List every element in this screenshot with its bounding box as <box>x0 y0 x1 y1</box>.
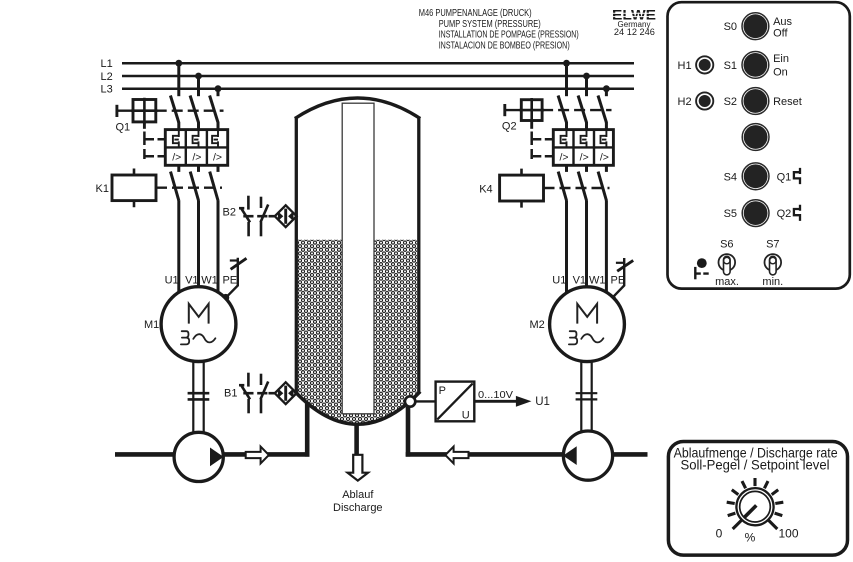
B1 contact 1 upper terminal <box>247 373 250 387</box>
transducer output arrowhead <box>516 396 532 407</box>
wire Q2 pole 3 to overload box <box>605 122 608 131</box>
bus line L2 <box>122 75 634 78</box>
svg-text:S4: S4 <box>724 171 737 183</box>
breaker Q2 handle link <box>505 109 522 111</box>
svg-text:Ablauf: Ablauf <box>342 489 374 501</box>
pipe left horizontal <box>115 452 310 457</box>
pipe left riser <box>305 403 310 457</box>
svg-text:Off: Off <box>773 27 788 39</box>
svg-text:INSTALLATION DE POMPAGE (PRESS: INSTALLATION DE POMPAGE (PRESSION) <box>439 30 579 41</box>
B1 diamond left triangle <box>278 388 283 398</box>
tank left wall <box>295 117 298 395</box>
B1 contact 1 lower terminal <box>247 399 250 413</box>
svg-text:Discharge: Discharge <box>333 502 383 514</box>
svg-text:/>: /> <box>172 152 181 164</box>
svg-text:U1: U1 <box>535 396 550 408</box>
svg-text:S5: S5 <box>724 208 737 220</box>
Q1 trip linkage dashed horizontal lower <box>146 155 166 158</box>
motor M2 sine glyph <box>581 334 603 342</box>
B2 contact 2 cross tick <box>257 215 267 218</box>
B2 diamond connector <box>275 205 297 227</box>
PE link blade (M2) <box>617 260 633 271</box>
wire F1 to K1 contact pole 3 <box>217 165 220 172</box>
B1 diamond connector <box>275 382 297 404</box>
svg-text:B1: B1 <box>224 388 237 400</box>
breaker Q1 handle tick <box>115 105 118 117</box>
sensor B1 contact group <box>239 373 277 414</box>
flow arrow right-pointing <box>246 447 269 464</box>
svg-text:100: 100 <box>778 527 798 541</box>
breaker Q1 pole 2 blade <box>190 96 198 123</box>
svg-text:Q2: Q2 <box>777 208 792 220</box>
svg-text:Q2: Q2 <box>502 121 517 133</box>
svg-text:min.: min. <box>762 276 783 288</box>
bus line L3 <box>122 87 634 90</box>
breaker Q1 pole 3 blade <box>210 96 218 123</box>
contactor K4 coil box <box>500 175 544 201</box>
transducer diagonal <box>437 383 473 419</box>
Q1 trip linkage dashed horizontal upper <box>146 138 166 141</box>
svg-text:0...10V: 0...10V <box>478 390 513 401</box>
wire K1 to motor U1 <box>177 200 180 292</box>
pump P1 impeller triangle <box>210 448 224 467</box>
node L3-Q2 junction <box>603 85 610 92</box>
node L1-Q2 junction <box>563 60 570 67</box>
coupling M1 <box>188 393 210 399</box>
wire L1 drop to Q1 pole 1 <box>177 63 180 96</box>
B2 diamond left triangle <box>278 211 283 221</box>
Q2 linkage dashed line <box>542 109 611 111</box>
tank liquid fill pattern <box>298 240 417 424</box>
svg-text:S6: S6 <box>720 238 733 250</box>
Q2 trip linkage dashed horizontal upper <box>533 138 554 141</box>
B1 contact 2 lower terminal <box>260 399 263 413</box>
contactor K1 contact blade pole 1 <box>171 172 179 201</box>
B2 contact 2 lower terminal <box>260 222 263 236</box>
svg-text:S0: S0 <box>724 21 737 33</box>
pressure tap circle <box>405 396 415 406</box>
PE wire (M1) <box>226 258 238 298</box>
motor M1 3 glyph <box>181 331 189 344</box>
breaker Q2 operator cross <box>520 98 545 122</box>
svg-text:Q1: Q1 <box>116 121 131 133</box>
indicator H2 <box>696 92 713 109</box>
node PE junction on M2 <box>609 295 616 302</box>
svg-text:S2: S2 <box>724 96 737 108</box>
wire F2 to K4 contact pole 1 <box>565 165 568 172</box>
Q1 trip linkage dashed vertical <box>143 132 146 160</box>
overload relay F2 thermal element pole 3 <box>601 130 607 147</box>
discharge arrow <box>348 455 368 481</box>
B2 contact 1 blade tick <box>239 207 244 210</box>
pump P1 circle <box>174 432 223 481</box>
svg-text:H2: H2 <box>678 96 692 108</box>
breaker Q2 pole 2 blade <box>578 96 586 123</box>
wire F1 to K1 contact pole 2 <box>197 165 200 172</box>
wire Q1 pole 1 to overload box <box>177 122 180 131</box>
svg-text:/>: /> <box>559 152 568 164</box>
knob scale ticks <box>727 478 784 529</box>
svg-text:/>: /> <box>213 152 222 164</box>
wire F2 to K4 contact pole 3 <box>605 165 608 172</box>
motor M2 3 glyph <box>569 331 577 344</box>
svg-text:K4: K4 <box>479 184 492 196</box>
pipe right riser <box>406 407 411 457</box>
wire Q1 pole 2 to overload box <box>197 122 200 131</box>
breaker Q2 handle tick <box>503 104 506 116</box>
overload relay F1 dividers <box>165 130 227 166</box>
contactor K1 contact blade pole 2 <box>190 172 198 201</box>
wire L3 drop to Q2 pole 3 <box>605 89 608 97</box>
B1 contact 2 cross tick <box>257 392 267 395</box>
svg-text:V1: V1 <box>573 274 586 286</box>
svg-text:24 12 246: 24 12 246 <box>614 27 655 37</box>
breaker Q1 operator cross <box>131 98 157 124</box>
svg-text:PE: PE <box>222 274 237 286</box>
svg-text:0: 0 <box>716 527 723 541</box>
K4 linkage dashed line <box>544 187 610 189</box>
motor M2 circle <box>550 287 625 362</box>
wire F2 to K4 contact pole 2 <box>585 165 588 172</box>
B2 link wire to diamond <box>269 215 277 218</box>
pipe tank outlet <box>354 423 359 455</box>
B2 contact 1 upper terminal <box>247 196 250 210</box>
Q1 trip linkage stub <box>143 122 146 129</box>
shaft M1 <box>193 361 203 433</box>
Q1 linkage dashed line <box>156 109 224 111</box>
PE link blade (M1) <box>231 258 247 269</box>
B1 contact 2 upper terminal <box>260 374 263 385</box>
svg-text:S7: S7 <box>766 238 779 250</box>
contactor K1 coil box <box>112 175 156 201</box>
svg-text:Ein: Ein <box>773 53 789 65</box>
knob inner circle <box>740 491 771 522</box>
overload relay F2 dividers <box>553 130 613 166</box>
B1 contact 1 blade tick <box>239 384 244 387</box>
breaker Q2 pole 3 blade <box>598 96 606 123</box>
overload relay F2 box <box>553 130 613 166</box>
lamp icon <box>695 258 708 279</box>
shaft M2 <box>576 361 598 432</box>
bus line L1 <box>122 62 634 65</box>
svg-text:max.: max. <box>715 276 739 288</box>
contactor K4 coil ticks <box>520 169 523 208</box>
node L2-Q2 junction <box>583 73 590 80</box>
motor M2 M glyph <box>577 304 597 324</box>
wire Q2 pole 1 to overload box <box>565 122 568 131</box>
B2 diamond right triangle <box>288 211 293 221</box>
B2 contact 1 blade <box>241 208 250 222</box>
indicator H1 <box>696 56 713 73</box>
button S3 unlabeled <box>742 124 769 151</box>
pump P2 circle <box>563 431 612 480</box>
svg-text:H1: H1 <box>678 60 692 72</box>
overload relay F1 thermal element pole 2 <box>193 130 199 147</box>
svg-text:L3: L3 <box>101 84 113 96</box>
B2 contact 2 upper terminal <box>260 197 263 208</box>
overload relay F2 thermal element pole 1 <box>561 130 567 147</box>
B1 contact 2 blade <box>261 382 269 400</box>
svg-text:P: P <box>439 385 446 397</box>
svg-text:U1: U1 <box>165 274 179 286</box>
button S4 <box>742 163 769 190</box>
wire Q2 pole 2 to overload box <box>585 122 588 131</box>
svg-text:%: % <box>745 531 756 545</box>
svg-text:On: On <box>773 66 788 78</box>
wire K4 to motor V1 <box>585 200 588 288</box>
button S0 <box>742 13 769 40</box>
overload relay F1 thermal element pole 1 <box>173 130 179 147</box>
wire Q1 pole 3 to overload box <box>217 122 220 131</box>
wire L2 drop to Q2 pole 2 <box>585 76 588 96</box>
svg-text:B2: B2 <box>223 207 236 219</box>
button S2 <box>742 88 769 115</box>
toggle switch S7 <box>765 254 782 275</box>
PE link tick (M1) <box>230 259 237 261</box>
svg-text:/>: /> <box>192 152 201 164</box>
wire K1 to motor V1 <box>197 200 200 288</box>
breaker Q1 operator square <box>133 100 156 122</box>
svg-text:/>: /> <box>600 152 609 164</box>
motor M1 M glyph <box>189 304 209 324</box>
wire K1 to motor W1 <box>217 200 220 292</box>
svg-text:L2: L2 <box>101 71 113 83</box>
contactor K4 contact blade pole 1 <box>558 172 566 201</box>
PE wire (M2) <box>613 258 624 297</box>
transducer output wire <box>474 400 518 403</box>
B1 contact 1 cross tick <box>243 392 253 395</box>
wire L2 drop to Q1 pole 2 <box>197 76 200 96</box>
knob outer circle <box>736 488 773 525</box>
control panel frame <box>668 2 850 288</box>
breaker icon S4 <box>794 168 800 184</box>
wire K4 to motor W1 <box>605 200 608 292</box>
svg-text:W1: W1 <box>589 274 606 286</box>
knob pointer <box>744 505 756 517</box>
Q2 trip linkage dashed horizontal lower <box>533 155 554 158</box>
svg-text:W1: W1 <box>201 274 218 286</box>
node PE junction on M1 <box>222 294 229 301</box>
contactor K4 contact blade pole 3 <box>598 172 606 201</box>
wire L3 drop to Q1 pole 3 <box>217 89 220 97</box>
tank bottom dome <box>295 392 420 425</box>
breaker Q1 pole 1 blade <box>170 96 178 123</box>
pipe right horizontal <box>406 452 648 457</box>
svg-text:/>: /> <box>580 152 589 164</box>
contactor K1 contact blade pole 3 <box>210 172 218 201</box>
B2 contact 2 blade <box>261 205 269 223</box>
svg-text:PUMP SYSTEM (PRESSURE): PUMP SYSTEM (PRESSURE) <box>439 19 541 30</box>
svg-text:K1: K1 <box>96 183 109 195</box>
transducer P/U box <box>436 382 475 422</box>
tank right wall <box>417 117 420 395</box>
B1 diamond right triangle <box>288 388 293 398</box>
wire F1 to K1 contact pole 1 <box>177 165 180 172</box>
svg-text:M2: M2 <box>530 319 545 331</box>
svg-text:U1: U1 <box>552 274 566 286</box>
ELWE logo <box>612 8 656 23</box>
tank top dome <box>295 98 420 119</box>
svg-text:U: U <box>462 409 470 421</box>
breaker Q2 operator square <box>521 100 542 121</box>
wire L1 drop to Q2 pole 1 <box>565 63 568 96</box>
overload relay F1 box <box>165 130 227 166</box>
sensor B2 contact group <box>239 196 277 237</box>
B2 contact 1 lower terminal <box>247 222 250 236</box>
svg-text:V1: V1 <box>185 274 198 286</box>
B1 link wire to diamond <box>269 392 277 395</box>
toggle switch S6 <box>719 254 736 275</box>
B1 contact 1 blade <box>241 385 250 399</box>
svg-text:INSTALACION DE BOMBEO (PRESION: INSTALACION DE BOMBEO (PRESION) <box>439 40 570 51</box>
pump P2 impeller triangle <box>563 446 577 465</box>
breaker Q2 pole 1 blade <box>558 96 566 123</box>
breaker Q1 handle link <box>117 109 133 111</box>
wire K4 to motor U1 <box>565 200 568 292</box>
contactor K1 coil ticks <box>133 169 136 208</box>
svg-text:Soll-Pegel / Setpoint level: Soll-Pegel / Setpoint level <box>681 457 830 473</box>
node L2-Q1 junction <box>195 73 202 80</box>
svg-text:M46 PUMPENANLAGE (DRUCK): M46 PUMPENANLAGE (DRUCK) <box>419 8 532 19</box>
tank sight tube <box>342 103 374 414</box>
svg-text:Aus: Aus <box>773 16 792 28</box>
wire tap to transducer <box>415 400 436 402</box>
button S1 <box>742 52 769 79</box>
Q2 trip linkage stub <box>530 121 533 129</box>
B2 contact 1 cross tick <box>243 215 253 218</box>
Q2 trip linkage dashed vertical <box>530 132 533 160</box>
flow arrow left-pointing <box>445 447 468 464</box>
svg-text:Reset: Reset <box>773 96 802 108</box>
svg-text:L1: L1 <box>101 58 113 70</box>
overload relay F2 thermal element pole 2 <box>581 130 587 147</box>
contactor K4 contact blade pole 2 <box>578 172 586 201</box>
motor M1 sine glyph <box>193 334 215 342</box>
K1 linkage dashed line <box>156 186 222 188</box>
svg-text:Q1: Q1 <box>777 171 792 183</box>
button S5 <box>742 200 769 227</box>
breaker icon S5 <box>794 205 800 221</box>
node L1-Q1 junction <box>175 60 182 67</box>
PE link tick (M2) <box>616 262 623 264</box>
overload relay F1 thermal element pole 3 <box>212 130 218 147</box>
motor M1 circle <box>161 287 236 362</box>
svg-text:M1: M1 <box>144 319 159 331</box>
node L3-Q1 junction <box>215 85 222 92</box>
discharge panel frame <box>668 442 847 556</box>
svg-text:S1: S1 <box>724 60 737 72</box>
